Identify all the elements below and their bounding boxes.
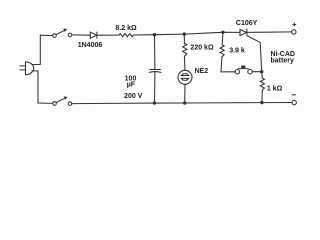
svg-text:NE2: NE2 [195,68,209,75]
wire switch to diode [72,34,91,36]
svg-text:battery: battery [271,57,294,64]
wire 1k to bottom [261,90,263,103]
switch S2 bottom [53,96,72,105]
node F junction [260,70,263,73]
diode D1 1N4006 [90,32,97,38]
svg-text:220 kΩ: 220 kΩ [190,45,214,52]
wire NE2 to bottom [184,84,186,103]
wire pushbutton to node F [252,71,262,73]
svg-text:3.9 k: 3.9 k [229,48,245,55]
wire node C to SCR [223,31,240,33]
resistor R2 220k zigzag [183,43,187,56]
node E junction bottom NE2 [183,101,186,104]
wire 220k to NE2 [183,56,186,70]
node A junction [153,33,156,36]
- terminal [292,95,296,105]
node C junction [221,31,224,34]
wire node C to 3.9k [221,32,224,44]
node B junction [183,32,186,35]
resistor R4 1k zigzag [260,78,264,90]
capacitor C1 [149,70,161,73]
svg-text:1 kΩ: 1 kΩ [267,86,283,93]
wire diode to resistor [97,34,119,36]
svg-text:8.2 kΩ: 8.2 kΩ [115,25,137,32]
svg-text:µF: µF [127,82,136,89]
node G junction bottom 1k [260,101,263,104]
resistor R1 8.2k zigzag [119,34,134,37]
wire plug to top switch [32,35,52,64]
SCR gate wire [247,36,261,70]
svg-text:200 V: 200 V [124,93,143,100]
svg-text:1N4006: 1N4006 [78,42,103,49]
capacitor C1 branch wire top [154,35,156,69]
svg-text:C106Y: C106Y [236,20,258,27]
wire node B to 220k [183,34,185,44]
AC plug [20,62,34,75]
bottom wire [72,103,292,104]
wire SCR to + terminal [247,31,292,34]
+ terminal [292,23,296,34]
capacitor C1 branch wire bottom [154,72,156,103]
resistor R3 3.9k zigzag [220,45,224,57]
wire node F to 1k [261,72,264,79]
SCR U1 C106Y [240,29,247,35]
wire resistor to node A [134,34,155,36]
node D junction bottom cap [153,101,156,104]
wire node A to node B [155,33,185,36]
wire node B to node C [184,32,223,34]
pushbutton S3 [235,66,252,74]
switch S1 top [53,29,72,38]
wire 3.9k to pushbutton [221,57,235,72]
wire plug to bottom switch [32,71,53,104]
neon lamp NE2 [178,70,192,84]
